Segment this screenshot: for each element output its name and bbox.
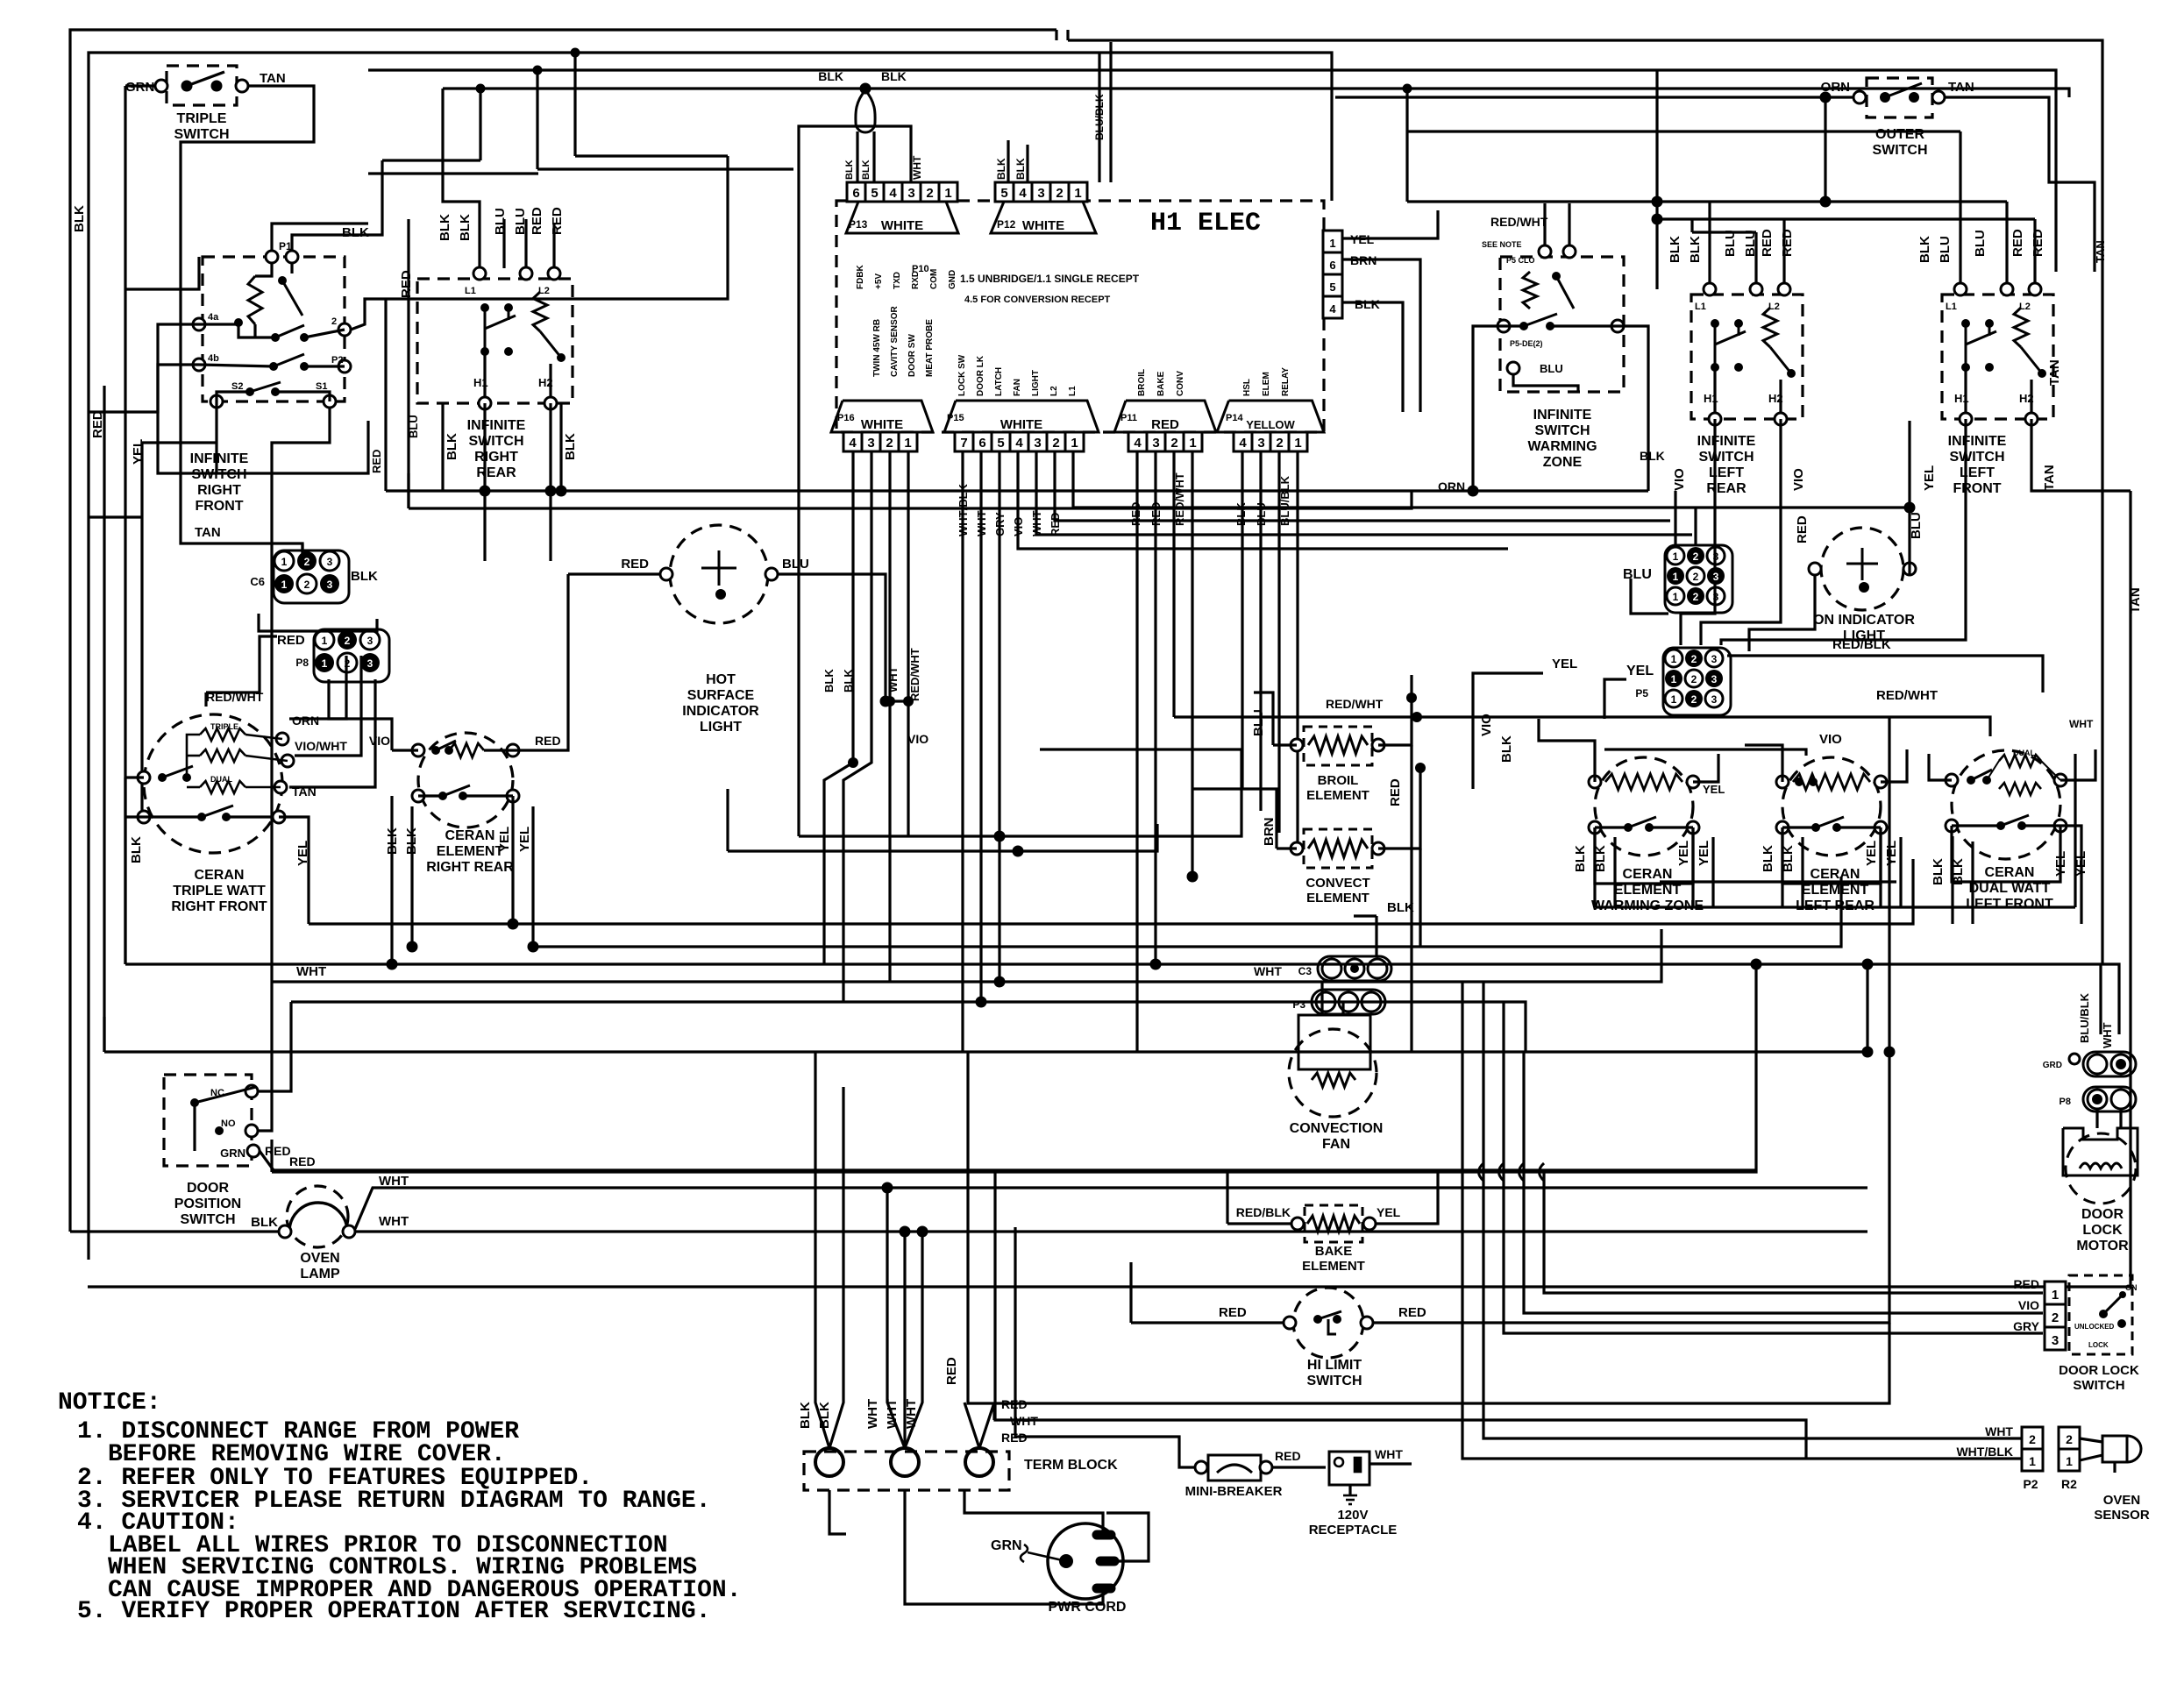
wire triple switch right — [181, 86, 314, 532]
svg-text:2: 2 — [886, 436, 893, 451]
svg-text:BLK: BLK — [1688, 236, 1703, 263]
svg-text:DUAL WATT: DUAL WATT — [1969, 881, 2051, 896]
svg-text:TAN: TAN — [195, 525, 221, 540]
svg-text:TAN: TAN — [2094, 240, 2107, 263]
svg-text:DUAL: DUAL — [2013, 749, 2035, 757]
svg-text:3: 3 — [1152, 436, 1159, 451]
receptacle ground — [1348, 1485, 1351, 1495]
wire top bus L2 — [89, 53, 1332, 1260]
svg-text:3: 3 — [1713, 571, 1719, 583]
left rear interior — [1704, 283, 1716, 295]
outer switch box — [1867, 78, 1932, 117]
connector P5 yellow — [1663, 648, 1731, 715]
infinite switch right front interior — [266, 251, 278, 263]
svg-text:BLU: BLU — [1623, 567, 1652, 582]
svg-text:5: 5 — [997, 436, 1004, 451]
term block circles — [815, 1448, 843, 1476]
svg-text:4a: 4a — [208, 312, 219, 323]
svg-text:RECEPTACLE: RECEPTACLE — [1309, 1523, 1398, 1537]
svg-text:GRN: GRN — [220, 1147, 245, 1160]
svg-text:YEL: YEL — [1703, 783, 1725, 796]
svg-text:PWR CORD: PWR CORD — [1049, 1600, 1127, 1615]
svg-text:2: 2 — [304, 579, 310, 591]
svg-text:S2: S2 — [231, 381, 243, 392]
svg-text:WHT: WHT — [1254, 964, 1282, 978]
svg-text:WHT: WHT — [1985, 1424, 2013, 1438]
svg-text:3: 3 — [1034, 436, 1041, 451]
bulb BLK BLK — [856, 90, 875, 132]
infinite switch right rear box — [417, 279, 573, 403]
connector strip bottom 1 white4 — [831, 401, 933, 432]
svg-text:BAKE: BAKE — [1156, 371, 1166, 396]
ceran element left rear — [1782, 757, 1881, 856]
wire to receptacle — [1272, 1466, 1326, 1468]
svg-text:RED: RED — [265, 1144, 291, 1158]
wire horizontal runs center — [799, 780, 1241, 836]
broil element box — [1304, 727, 1372, 765]
svg-text:L2: L2 — [538, 286, 550, 296]
wires around right front switch — [272, 224, 368, 251]
svg-text:REAR: REAR — [476, 465, 516, 480]
svg-text:FDBK: FDBK — [856, 264, 865, 289]
svg-text:L1: L1 — [1695, 302, 1706, 312]
door position switch box — [164, 1075, 252, 1166]
wires pwr cord — [964, 1490, 1103, 1530]
svg-text:RED/WHT: RED/WHT — [1490, 215, 1548, 229]
wire bus h1337 — [272, 964, 1756, 1172]
svg-text:1: 1 — [904, 436, 911, 451]
svg-text:DOOR LK: DOOR LK — [976, 355, 985, 396]
svg-text:CERAN: CERAN — [1811, 867, 1860, 882]
connector C5 blue — [1665, 545, 1732, 613]
pwr cord plug — [1048, 1523, 1123, 1599]
svg-text:SEE NOTE: SEE NOTE — [1482, 240, 1522, 249]
svg-text:LIGHT: LIGHT — [1031, 370, 1041, 396]
wire hops at 1337 — [1479, 1163, 1484, 1181]
wires ceran dual watt — [1929, 754, 1952, 780]
svg-text:RED: RED — [621, 557, 649, 572]
infinite switch right rear terminals top — [473, 267, 486, 280]
svg-text:SWITCH: SWITCH — [1306, 1374, 1362, 1388]
svg-text:CONV: CONV — [1176, 371, 1185, 396]
mini-breaker — [1208, 1455, 1261, 1481]
svg-text:RED: RED — [1219, 1305, 1247, 1320]
svg-text:RED/WHT: RED/WHT — [1326, 697, 1384, 711]
svg-text:ON INDICATOR: ON INDICATOR — [1813, 613, 1915, 628]
svg-text:FRONT: FRONT — [195, 499, 243, 514]
oven sensor — [2102, 1436, 2127, 1462]
left front interior — [1954, 283, 1967, 295]
svg-text:SWITCH: SWITCH — [180, 1212, 235, 1227]
svg-text:1: 1 — [281, 556, 288, 568]
svg-text:ON: ON — [2125, 1283, 2138, 1292]
svg-text:MINI-BREAKER: MINI-BREAKER — [1185, 1484, 1283, 1499]
svg-text:BLK: BLK — [842, 669, 855, 692]
svg-text:6: 6 — [978, 436, 985, 451]
svg-text:3: 3 — [2052, 1333, 2059, 1348]
wire grid h250 — [1657, 217, 2035, 220]
connector P3 — [1316, 992, 1335, 1012]
svg-text:4: 4 — [1019, 186, 1027, 201]
wire bus h1468 — [88, 1285, 2131, 1288]
svg-text:BLK: BLK — [251, 1215, 278, 1230]
svg-text:BLK: BLK — [342, 225, 369, 240]
ceran triple watt right front circle — [144, 714, 282, 853]
svg-text:2: 2 — [304, 556, 310, 568]
svg-text:P3: P3 — [1292, 998, 1305, 1011]
svg-text:P11: P11 — [1120, 413, 1137, 423]
svg-text:R2: R2 — [2061, 1477, 2077, 1491]
wire bus h1100 — [125, 962, 2101, 965]
svg-text:ELEMENT: ELEMENT — [437, 844, 504, 859]
svg-text:2: 2 — [1052, 436, 1059, 451]
triple switch terminals — [155, 80, 167, 92]
svg-text:OVEN: OVEN — [300, 1251, 339, 1266]
wire drops from white4 — [824, 451, 853, 964]
svg-text:MEAT PROBE: MEAT PROBE — [925, 319, 935, 377]
svg-text:GND: GND — [948, 270, 957, 289]
svg-text:RIGHT: RIGHT — [474, 450, 518, 465]
svg-text:C6: C6 — [250, 575, 265, 588]
svg-text:L2: L2 — [1049, 386, 1059, 396]
connector P2 — [2022, 1427, 2043, 1449]
svg-text:BLU: BLU — [1938, 236, 1953, 263]
svg-text:1: 1 — [1074, 186, 1081, 201]
svg-text:C3: C3 — [1298, 965, 1313, 977]
svg-text:2: 2 — [2052, 1310, 2059, 1325]
svg-text:UNLOCKED: UNLOCKED — [2074, 1323, 2115, 1331]
term block feed wires — [815, 1052, 829, 1448]
svg-text:BLK: BLK — [844, 160, 855, 180]
wires connector C6 — [301, 543, 303, 554]
svg-text:BLK: BLK — [445, 433, 459, 460]
wire TAN lower — [181, 532, 302, 554]
svg-text:LOCK: LOCK — [2082, 1223, 2123, 1238]
svg-text:RED: RED — [2031, 229, 2045, 257]
svg-text:BAKE: BAKE — [1315, 1244, 1353, 1259]
svg-text:RED: RED — [277, 633, 305, 648]
svg-text:WHT: WHT — [296, 964, 326, 979]
wires to right rear switch — [368, 172, 538, 174]
infinite switch right front box — [203, 257, 345, 401]
svg-text:BLU: BLU — [1723, 230, 1738, 257]
svg-text:P2: P2 — [331, 355, 343, 366]
svg-text:YEL: YEL — [2053, 851, 2068, 877]
svg-text:LOCK SW: LOCK SW — [957, 354, 967, 396]
svg-text:CERAN: CERAN — [445, 828, 495, 843]
svg-text:H1 ELEC: H1 ELEC — [1150, 209, 1261, 238]
svg-text:5: 5 — [1000, 186, 1007, 201]
svg-text:2: 2 — [926, 186, 933, 201]
wire hot surface right — [778, 574, 886, 701]
svg-text:P5 CLO: P5 CLO — [1506, 256, 1535, 265]
wires ceran warming — [1539, 719, 1595, 782]
wire drops from white7 deep — [961, 451, 964, 1052]
door lock motor — [2063, 1128, 2138, 1175]
svg-text:MOTOR: MOTOR — [2076, 1239, 2129, 1253]
svg-text:CERAN: CERAN — [1985, 865, 2035, 880]
svg-text:4: 4 — [1015, 436, 1023, 451]
svg-text:YEL: YEL — [1922, 465, 1937, 491]
svg-text:L2: L2 — [1768, 302, 1780, 312]
svg-text:DOOR SW: DOOR SW — [907, 334, 917, 377]
wire VIO center segment — [1040, 748, 1241, 750]
svg-text:INFINITE: INFINITE — [1533, 408, 1592, 423]
svg-text:FRONT: FRONT — [1953, 481, 2001, 496]
svg-text:OUTER: OUTER — [1875, 127, 1924, 142]
svg-text:NO: NO — [221, 1118, 236, 1129]
wires left rear — [1708, 202, 1711, 284]
svg-text:BLK: BLK — [1917, 236, 1932, 263]
svg-text:1: 1 — [1294, 436, 1301, 451]
infinite switch left rear box — [1691, 295, 1803, 419]
connector strip bottom 3 red4 — [1114, 401, 1216, 432]
connector P8 — [314, 629, 389, 682]
svg-text:BRN: BRN — [1262, 818, 1277, 847]
wire riser 505 — [441, 89, 444, 174]
wires outer switch — [1335, 96, 1853, 98]
svg-text:TAN: TAN — [2042, 465, 2057, 491]
svg-text:WHITE: WHITE — [1022, 218, 1064, 233]
svg-text:BLK: BLK — [1573, 845, 1588, 872]
svg-text:P16: P16 — [837, 413, 855, 423]
svg-text:LATCH: LATCH — [994, 367, 1004, 396]
svg-text:RED: RED — [289, 1154, 316, 1168]
svg-text:BLK: BLK — [1355, 297, 1380, 311]
svg-text:3: 3 — [1713, 591, 1719, 603]
wire bundle right verticals — [1462, 982, 2022, 1459]
svg-text:SURFACE: SURFACE — [687, 688, 755, 703]
svg-text:P14: P14 — [1226, 413, 1243, 423]
svg-text:SWITCH: SWITCH — [1949, 450, 2004, 465]
svg-text:1: 1 — [2066, 1454, 2073, 1468]
svg-text:INFINITE: INFINITE — [190, 451, 249, 466]
door lock switch box — [2069, 1275, 2132, 1354]
svg-text:3: 3 — [867, 436, 874, 451]
svg-text:WHT: WHT — [865, 1399, 880, 1429]
svg-text:SWITCH: SWITCH — [174, 127, 229, 142]
wire from S1 down — [272, 401, 330, 982]
svg-text:P2: P2 — [2023, 1477, 2038, 1491]
svg-text:1: 1 — [1673, 571, 1679, 583]
svg-text:RED: RED — [1795, 515, 1810, 543]
svg-text:BLU: BLU — [407, 415, 420, 438]
svg-text:2: 2 — [1691, 693, 1697, 706]
svg-text:RIGHT: RIGHT — [197, 483, 241, 498]
svg-text:L1: L1 — [1946, 302, 1957, 312]
svg-text:YEL: YEL — [1626, 664, 1654, 678]
svg-text:BLK: BLK — [1931, 858, 1946, 885]
svg-text:2: 2 — [1056, 186, 1063, 201]
svg-text:RED: RED — [1275, 1449, 1301, 1463]
svg-text:DUAL: DUAL — [210, 775, 232, 784]
svg-text:RED: RED — [1398, 1305, 1426, 1320]
svg-text:4b: 4b — [208, 353, 219, 364]
svg-text:L2: L2 — [2019, 302, 2031, 312]
wires door switch — [260, 1151, 1756, 1170]
wire bus h1054 — [309, 859, 1913, 924]
svg-text:BLK: BLK — [438, 214, 452, 241]
svg-text:2: 2 — [1691, 673, 1697, 685]
svg-text:VIO: VIO — [907, 732, 928, 746]
svg-text:ELEMENT: ELEMENT — [1306, 788, 1369, 803]
svg-text:5: 5 — [1329, 280, 1335, 294]
wires door lock motor — [2099, 964, 2102, 1034]
svg-text:1: 1 — [322, 635, 328, 647]
svg-text:4: 4 — [1239, 436, 1247, 451]
svg-text:YEL: YEL — [1552, 657, 1577, 671]
wire long h580 — [409, 491, 1412, 508]
svg-text:FAN: FAN — [1013, 379, 1022, 396]
wire grid h230 — [1407, 200, 2007, 202]
svg-text:WHT: WHT — [904, 1399, 919, 1429]
svg-text:BLK: BLK — [818, 69, 843, 83]
svg-text:2: 2 — [1276, 436, 1283, 451]
svg-text:3: 3 — [1713, 550, 1719, 563]
svg-text:3: 3 — [327, 579, 333, 591]
svg-text:INDICATOR: INDICATOR — [682, 704, 759, 719]
svg-text:DOOR LOCK: DOOR LOCK — [2059, 1363, 2139, 1378]
svg-text:RED/WHT: RED/WHT — [206, 690, 264, 704]
svg-text:POSITION: POSITION — [174, 1197, 241, 1211]
svg-text:6: 6 — [1329, 259, 1335, 272]
wire long h560 — [386, 489, 1648, 492]
oven lamp — [287, 1186, 348, 1247]
svg-text:LAMP: LAMP — [300, 1267, 340, 1282]
svg-text:CERAN: CERAN — [1623, 867, 1673, 882]
svg-text:RED: RED — [530, 207, 544, 235]
svg-text:RED: RED — [399, 270, 414, 298]
svg-text:L1: L1 — [1068, 386, 1078, 396]
svg-text:S1: S1 — [316, 381, 327, 392]
wires to minibreaker etc — [968, 1052, 1889, 1403]
wire top bus 3 — [368, 70, 2056, 272]
svg-text:P15: P15 — [947, 413, 964, 423]
svg-text:BLK: BLK — [817, 1402, 832, 1429]
wires oven lamp — [70, 1230, 279, 1232]
svg-text:NOTICE:: NOTICE: — [58, 1389, 161, 1417]
svg-text:LIGHT: LIGHT — [700, 720, 742, 735]
svg-text:CONVECT: CONVECT — [1305, 876, 1369, 891]
svg-text:RED/WHT: RED/WHT — [1876, 688, 1938, 703]
svg-text:1: 1 — [1673, 591, 1679, 603]
infinite switch warming zone box — [1500, 257, 1624, 392]
ceran dual watt left front — [1952, 750, 2060, 859]
svg-text:LOCK: LOCK — [2088, 1341, 2109, 1349]
svg-text:RED: RED — [1151, 417, 1179, 432]
svg-text:VIO: VIO — [2018, 1298, 2039, 1312]
svg-text:1: 1 — [1071, 436, 1078, 451]
svg-text:WHT/BLK: WHT/BLK — [1956, 1445, 2013, 1459]
svg-text:3: 3 — [327, 556, 333, 568]
svg-text:L1: L1 — [465, 286, 476, 296]
svg-text:TAN: TAN — [2047, 359, 2062, 386]
svg-text:RED/BLK: RED/BLK — [1832, 637, 1891, 652]
ceran left rear interior dots — [1795, 778, 1803, 786]
svg-text:ELEMENT: ELEMENT — [1802, 883, 1869, 898]
svg-text:BLU: BLU — [1973, 230, 1988, 257]
svg-text:P8: P8 — [2060, 1097, 2071, 1107]
svg-text:RED: RED — [1388, 778, 1403, 806]
wire grid h265 — [1692, 231, 1756, 233]
bake element box — [1305, 1205, 1362, 1242]
svg-text:GRY: GRY — [2013, 1319, 2039, 1333]
svg-text:COM: COM — [929, 269, 939, 289]
connector strip bottom 2 white7 — [944, 401, 1099, 432]
svg-text:RED: RED — [944, 1357, 959, 1385]
wire bus h1200 — [104, 1050, 1867, 1053]
svg-text:2: 2 — [345, 635, 351, 647]
ceran element right rear circle — [418, 733, 513, 827]
connector R2 — [2059, 1427, 2080, 1449]
svg-text:YELLOW: YELLOW — [1246, 418, 1295, 431]
svg-text:P10: P10 — [912, 264, 929, 274]
svg-text:BLK: BLK — [351, 569, 378, 584]
svg-text:BLK: BLK — [881, 69, 907, 83]
wire top bus L1 — [70, 30, 1056, 1232]
svg-text:TRIPLE WATT: TRIPLE WATT — [173, 884, 266, 898]
svg-text:BLK: BLK — [563, 433, 578, 460]
wire triple switch left — [125, 84, 155, 87]
infinite switch left front box — [1942, 295, 2053, 419]
connector strip P13 top left — [847, 182, 865, 202]
svg-text:2: 2 — [2029, 1432, 2036, 1446]
svg-text:VIO: VIO — [1791, 468, 1806, 491]
ceran switch bottom — [138, 811, 150, 823]
svg-text:1: 1 — [2052, 1288, 2059, 1303]
svg-text:CONVECTION: CONVECTION — [1290, 1121, 1384, 1136]
wires bake — [1227, 1222, 1291, 1225]
on indicator light — [1821, 528, 1903, 610]
svg-text:2: 2 — [2066, 1432, 2073, 1446]
svg-text:+5V: +5V — [874, 273, 884, 289]
svg-text:WHT: WHT — [2101, 1022, 2114, 1048]
svg-text:2: 2 — [1693, 571, 1699, 583]
svg-text:3: 3 — [1257, 436, 1264, 451]
ceran element warming zone — [1595, 757, 1693, 856]
wire bus h1143 — [291, 1002, 1526, 1052]
svg-text:TRIPLE: TRIPLE — [177, 111, 227, 126]
svg-text:3: 3 — [1711, 653, 1718, 665]
wires connector C5 — [1631, 579, 1668, 614]
svg-text:RED: RED — [1760, 229, 1775, 257]
svg-text:TERM BLOCK: TERM BLOCK — [1024, 1458, 1118, 1473]
svg-text:WHT: WHT — [886, 666, 900, 692]
wires convect — [1277, 847, 1297, 849]
connector C6 — [274, 550, 349, 603]
svg-text:ELEMENT: ELEMENT — [1302, 1259, 1365, 1274]
svg-text:RED/WHT: RED/WHT — [908, 648, 921, 701]
svg-text:BLK: BLK — [1499, 735, 1514, 763]
svg-text:TXD: TXD — [893, 272, 902, 289]
small connector right end of H1 — [1323, 231, 1342, 252]
svg-text:RED: RED — [2013, 1277, 2039, 1291]
svg-text:P12: P12 — [997, 218, 1016, 231]
wires left front — [1959, 131, 1961, 284]
svg-text:GRN: GRN — [991, 1538, 1022, 1553]
svg-text:3: 3 — [367, 657, 373, 670]
svg-text:VIO: VIO — [1672, 468, 1687, 491]
svg-text:1: 1 — [322, 657, 328, 670]
svg-text:BLU/BLK: BLU/BLK — [2078, 992, 2091, 1043]
wire top bus 4 — [443, 89, 2069, 97]
svg-text:BLK: BLK — [798, 1402, 813, 1429]
svg-text:1: 1 — [1671, 673, 1677, 685]
wires ceran right rear — [392, 749, 418, 751]
wires connector P5 — [1604, 679, 1626, 719]
svg-text:HSL: HSL — [1242, 379, 1252, 396]
svg-text:ELEMENT: ELEMENT — [1614, 883, 1682, 898]
